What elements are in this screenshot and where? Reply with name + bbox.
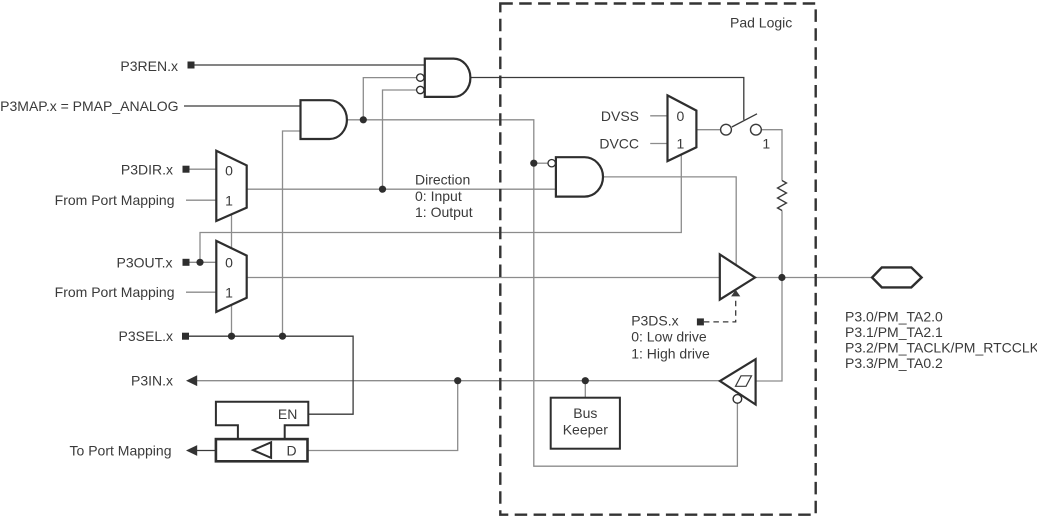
wire: P3MAP label to G2 top input — [184, 105, 301, 107]
svg-text:P3SEL.x: P3SEL.x — [119, 328, 173, 344]
wire: bus keeper stub — [584, 381, 586, 398]
svg-text:P3.2/PM_TACLK/PM_RTCCLK: P3.2/PM_TACLK/PM_RTCCLK — [845, 340, 1037, 356]
arrow P3IN.x — [186, 375, 197, 386]
resistor R1 — [778, 181, 787, 211]
junction dot P3SEL select 2 — [279, 333, 286, 340]
svg-text:P3MAP.x = PMAP_ANALOG: P3MAP.x = PMAP_ANALOG — [0, 98, 178, 114]
wire: G2 output to junction, down and to schmitt enable bubble — [347, 120, 738, 466]
svg-text:DVCC: DVCC — [599, 136, 639, 152]
output driver buffer — [720, 254, 755, 299]
wire: P3SEL to G2 lower input — [283, 131, 301, 336]
wire: From Port Mapping to mux M1 input 1 — [186, 199, 216, 201]
schmitt trigger input buffer — [720, 359, 756, 404]
wire: P3DIR.x to mux M1 input 0 — [190, 168, 217, 170]
pad hexagon — [872, 267, 922, 287]
and-gate G3 (inverted input, direction) — [556, 157, 603, 196]
junction dot G3 bubble tap — [530, 160, 537, 167]
svg-text:P3OUT.x: P3OUT.x — [116, 254, 172, 270]
wire: M2 output to output driver input — [247, 277, 720, 279]
and-gate G1 (3-input, 2 inverted) — [425, 59, 471, 97]
wire: P3SEL.x line down to EN input — [189, 336, 353, 414]
terminal square P3DS.x — [697, 318, 704, 325]
wire: Direction line (M1 output to NAND G3 input) — [247, 188, 556, 190]
wire: switch to resistor top — [761, 130, 782, 181]
and-gate G2 (P3MAP and P3SEL) — [301, 100, 347, 139]
svg-text:1: High drive: 1: High drive — [631, 345, 710, 361]
junction dot pad line — [778, 274, 785, 281]
wire: pad line junction down to schmitt input — [756, 278, 782, 382]
mux M0 (DVSS/DVCC) — [668, 95, 697, 161]
svg-text:To Port Mapping: To Port Mapping — [70, 442, 172, 458]
hysteresis symbol — [736, 376, 752, 387]
switch circle left — [721, 124, 732, 135]
svg-text:DVSS: DVSS — [601, 108, 639, 124]
junction dot P3IN / D latch — [454, 377, 461, 384]
junction dot G2 output — [360, 116, 367, 123]
bubble G1 input 2 — [417, 74, 424, 81]
svg-text:0: Input: 0: Input — [415, 188, 462, 204]
arrow To Port Mapping — [186, 445, 197, 456]
wire: DVCC input — [650, 143, 667, 145]
svg-text:P3.0/PM_TA2.0: P3.0/PM_TA2.0 — [845, 308, 943, 324]
svg-text:Keeper: Keeper — [563, 422, 608, 438]
wire: From Port Mapping to mux M2 input 1 — [186, 291, 216, 293]
wire: D latch input from P3IN junction — [308, 381, 458, 451]
junction dot P3IN / bus keeper — [582, 377, 589, 384]
svg-text:From Port Mapping: From Port Mapping — [55, 284, 175, 300]
bubble G1 input 3 — [417, 86, 424, 93]
wire: To Port Mapping from D latch — [197, 450, 216, 452]
svg-text:D: D — [287, 442, 297, 458]
wire: mux select vertical (M1 bottom through M2 to P3SEL) — [231, 214, 233, 336]
switch circle right — [751, 124, 762, 135]
svg-text:0: 0 — [677, 108, 685, 124]
terminal square P3SEL.x — [182, 333, 189, 340]
wire: driver output to pad hexagon — [755, 277, 872, 279]
wire: P3OUT dot up and right to DVSS/DVCC mux select — [200, 155, 681, 263]
D latch clock triangle — [253, 442, 271, 458]
svg-text:Bus: Bus — [573, 405, 597, 421]
dashed border: Pad Logic box — [500, 4, 815, 515]
D latch box — [216, 439, 308, 461]
junction dot direction line — [379, 186, 386, 193]
EN latch box — [216, 402, 308, 439]
wire: DVSS input — [650, 115, 667, 117]
svg-text:P3REN.x: P3REN.x — [120, 58, 178, 74]
svg-text:P3IN.x: P3IN.x — [131, 373, 173, 389]
svg-text:EN: EN — [278, 406, 297, 422]
svg-text:Pad Logic: Pad Logic — [730, 14, 792, 30]
svg-text:0: 0 — [225, 254, 233, 270]
bubble G3 input 1 — [548, 160, 555, 167]
junction dot P3OUT — [196, 259, 203, 266]
P3DS dashed control with arrow — [704, 297, 736, 322]
mux M2 (P3OUT) — [216, 241, 246, 312]
svg-text:0: 0 — [225, 162, 233, 178]
svg-text:0: Low drive: 0: Low drive — [631, 328, 707, 344]
schmitt enable bubble — [733, 395, 742, 404]
svg-text:P3DS.x: P3DS.x — [631, 313, 678, 329]
wire: P3IN line from arrow to schmitt output — [197, 380, 720, 382]
mux M1 (P3DIR) — [216, 151, 246, 221]
wire: junction to G3 bubble input — [534, 162, 548, 164]
junction dot P3SEL select 1 — [228, 333, 235, 340]
terminal square P3REN.x — [188, 62, 195, 69]
svg-text:1: 1 — [225, 284, 233, 300]
wire: P3OUT.x to mux M2 input 0 — [190, 261, 217, 263]
svg-text:From Port Mapping: From Port Mapping — [55, 192, 175, 208]
wire: P3REN.x to G1 top input — [195, 64, 425, 66]
svg-text:P3.3/PM_TA0.2: P3.3/PM_TA0.2 — [845, 355, 943, 371]
svg-text:1: Output: 1: Output — [415, 204, 473, 220]
svg-text:P3DIR.x: P3DIR.x — [121, 162, 173, 178]
wire: Direction junction up to G1 bubble 2 — [383, 90, 417, 189]
svg-text:Direction: Direction — [415, 171, 470, 187]
switch blade — [732, 114, 757, 127]
wire: G1 output to switch control — [470, 78, 743, 120]
wire: M0 output to switch — [696, 129, 720, 131]
svg-text:1: 1 — [762, 136, 770, 152]
svg-text:1: 1 — [225, 193, 233, 209]
bus keeper box — [551, 398, 620, 449]
svg-text:P3.1/PM_TA2.1: P3.1/PM_TA2.1 — [845, 324, 943, 340]
wire: G2 output dot up to G1 bubble 1 — [363, 78, 416, 120]
terminal square P3OUT.x — [183, 259, 190, 266]
svg-text:1: 1 — [677, 136, 685, 152]
terminal square P3DIR.x — [183, 166, 190, 173]
wire: G3 output down to driver enable — [603, 177, 736, 265]
wire: resistor bottom to pad line junction — [781, 211, 783, 278]
